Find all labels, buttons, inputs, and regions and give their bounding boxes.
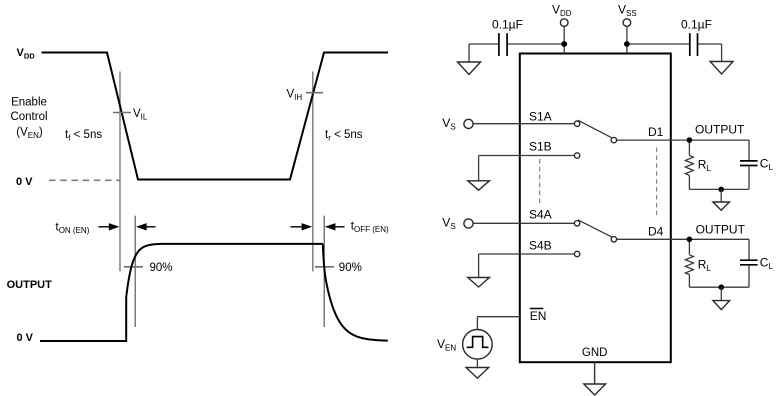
svg-text:VDD: VDD: [17, 47, 36, 61]
svg-text:EN: EN: [530, 309, 547, 323]
svg-text:90%: 90%: [150, 262, 173, 274]
svg-text:D4: D4: [648, 224, 664, 238]
svg-text:0 V: 0 V: [17, 332, 34, 344]
svg-text:RL: RL: [698, 158, 712, 174]
svg-text:S1A: S1A: [529, 109, 552, 123]
svg-text:Control: Control: [10, 111, 47, 123]
svg-text:Enable: Enable: [11, 97, 47, 109]
svg-text:tr < 5ns: tr < 5ns: [325, 129, 363, 143]
svg-text:VSS: VSS: [618, 2, 637, 18]
svg-text:tON (EN): tON (EN): [56, 222, 90, 236]
svg-text:D1: D1: [648, 125, 664, 139]
svg-text:tf < 5ns: tf < 5ns: [65, 129, 102, 143]
svg-text:0 V: 0 V: [16, 176, 33, 188]
svg-text:VDD: VDD: [552, 2, 572, 18]
svg-text:OUTPUT: OUTPUT: [696, 222, 746, 236]
svg-text:OUTPUT: OUTPUT: [7, 279, 53, 291]
svg-text:GND: GND: [582, 347, 608, 359]
svg-text:VIH: VIH: [287, 88, 303, 102]
svg-text:S4B: S4B: [529, 238, 552, 252]
svg-text:OUTPUT: OUTPUT: [695, 122, 745, 136]
svg-text:CL: CL: [760, 256, 774, 272]
svg-text:VIL: VIL: [133, 108, 148, 122]
svg-text:VEN: VEN: [437, 337, 456, 353]
svg-text:0.1µF: 0.1µF: [681, 18, 712, 32]
svg-text:90%: 90%: [339, 262, 362, 274]
svg-text:CL: CL: [760, 156, 774, 172]
svg-text:S1B: S1B: [529, 140, 552, 154]
svg-text:0.1µF: 0.1µF: [492, 18, 523, 32]
svg-text:RL: RL: [698, 258, 712, 274]
svg-text:tOFF (EN): tOFF (EN): [351, 221, 389, 235]
svg-text:VS: VS: [442, 116, 455, 131]
svg-text:(VEN): (VEN): [16, 127, 43, 141]
svg-text:VS: VS: [442, 216, 455, 231]
svg-text:S4A: S4A: [529, 208, 552, 222]
